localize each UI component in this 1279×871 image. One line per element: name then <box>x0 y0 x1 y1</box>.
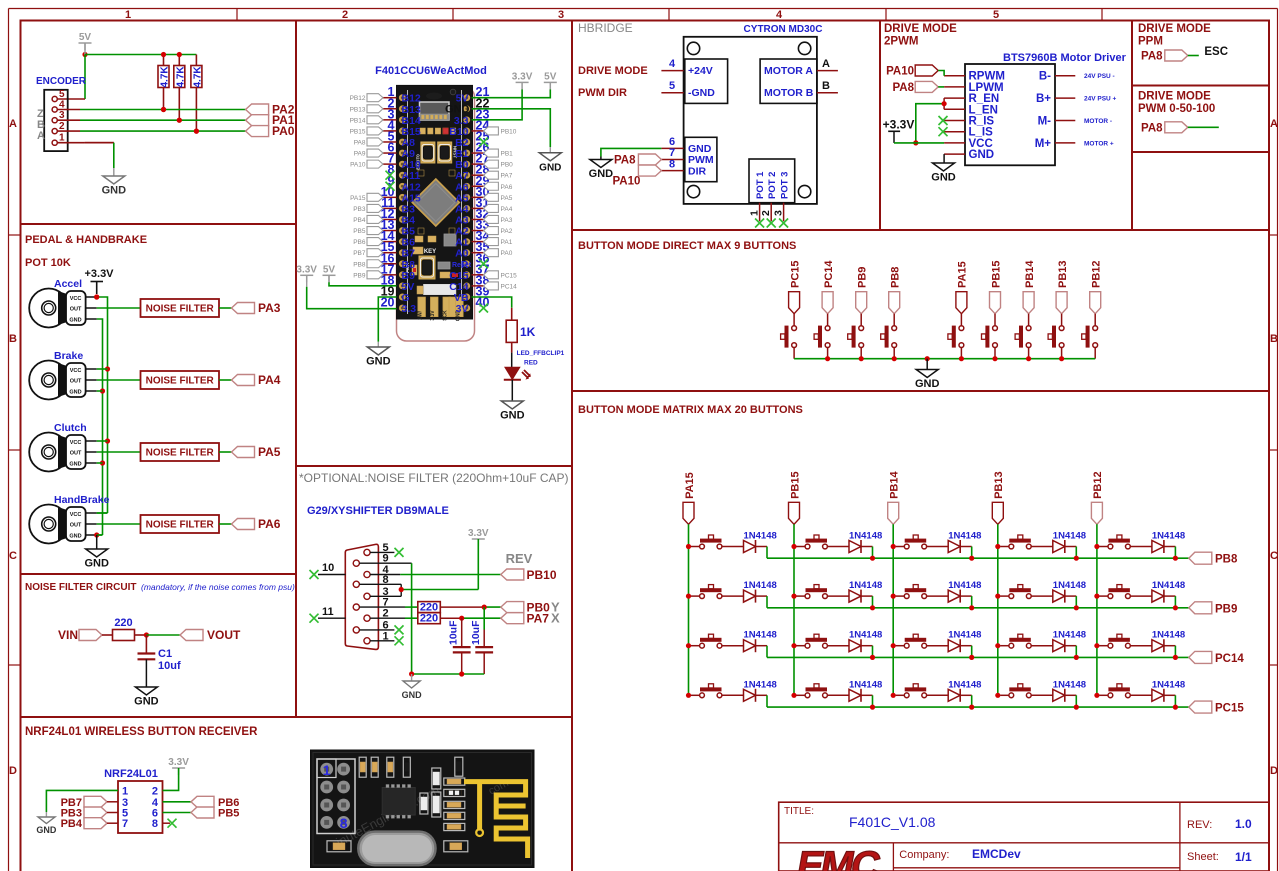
junction col PB14 row PC15 <box>891 693 896 698</box>
junction col PA15 row PC14 <box>686 643 691 648</box>
power 3.3V nrf <box>168 757 189 775</box>
wire VCC rail <box>97 297 108 513</box>
svg-text:MOTOR +: MOTOR + <box>1084 140 1114 147</box>
svg-text:PB10: PB10 <box>527 568 557 582</box>
svg-text:1N4148: 1N4148 <box>948 630 981 641</box>
wire pin39 to resistor <box>472 297 512 320</box>
hierarchical label PB8 row <box>1189 552 1238 566</box>
svg-text:4: 4 <box>776 9 783 21</box>
svg-text:REV: REV <box>506 551 533 566</box>
noise filter block HandBrake <box>141 515 220 533</box>
wire diode to bus r2c4 <box>1065 596 1077 608</box>
junction col PA15 row PB8 <box>686 544 691 549</box>
ground g29 <box>402 674 423 700</box>
svg-text:EMCDev: EMCDev <box>972 847 1021 861</box>
svg-text:REV:: REV: <box>1187 819 1212 831</box>
svg-text:+3.3V: +3.3V <box>84 268 114 280</box>
wire switch to diode r3c4 <box>1000 645 1053 647</box>
wire pin3 to PA1 <box>57 119 246 121</box>
svg-text:1N4148: 1N4148 <box>1053 679 1086 690</box>
svg-text:PC15: PC15 <box>789 260 801 288</box>
svg-text:2: 2 <box>760 210 772 216</box>
rev cell <box>1187 817 1252 831</box>
svg-text:M+: M+ <box>1035 138 1052 150</box>
diode 1N4148 r1c5 <box>1152 531 1185 554</box>
svg-text:BUTTON MODE DIRECT MAX 9 BUTTO: BUTTON MODE DIRECT MAX 9 BUTTONS <box>578 240 796 252</box>
svg-text:NOISE FILTER: NOISE FILTER <box>146 448 215 459</box>
noise filter block Accel <box>141 299 220 317</box>
junction col PB12 row PB9 <box>1094 594 1099 599</box>
switch SW PB14 <box>1015 326 1031 348</box>
svg-text:GND: GND <box>102 185 127 197</box>
svg-text:PA7: PA7 <box>501 173 513 180</box>
wire R to node <box>135 634 147 636</box>
pin numbers right 21-40 <box>472 85 490 309</box>
svg-text:1N4148: 1N4148 <box>849 580 882 591</box>
svg-text:PC15: PC15 <box>1215 703 1244 715</box>
svg-text:BTS7960B Motor Driver: BTS7960B Motor Driver <box>1003 52 1127 64</box>
section BUTTON MODE DIRECT <box>578 240 1103 390</box>
junctions direct bus <box>825 356 1064 361</box>
junction col PA15 row PB9 <box>686 594 691 599</box>
svg-text:PA15: PA15 <box>957 261 969 288</box>
capacitor 10uF right <box>470 607 493 674</box>
wire OUT Accel to noise filter <box>97 307 141 309</box>
potentiometer Clutch <box>29 422 97 472</box>
wire pin21 to 5V <box>472 89 551 97</box>
wire OUT HandBrake to noise filter <box>97 523 141 525</box>
title text <box>784 806 936 830</box>
hierarchical label PB6 <box>191 796 239 809</box>
wire diode to bus r2c2 <box>861 596 873 608</box>
junction col PA15 row PC15 <box>686 693 691 698</box>
svg-text:PA15: PA15 <box>350 195 366 202</box>
svg-text:GND: GND <box>500 410 525 422</box>
diode 1N4148 r2c5 <box>1152 580 1185 603</box>
wire row bus PC15 <box>767 706 1189 708</box>
svg-text:F401CCU6WeActMod: F401CCU6WeActMod <box>375 65 487 77</box>
wire 220 to PA7 <box>440 617 501 619</box>
switch SW matrix r1c5 <box>1108 535 1130 549</box>
svg-text:PB13: PB13 <box>993 471 1005 499</box>
svg-text:+3.3V: +3.3V <box>883 118 915 132</box>
ground 2pwm <box>931 163 956 184</box>
wire pin4 REV <box>400 574 501 576</box>
wire label to switch PC15 <box>793 314 795 326</box>
svg-text:1N4148: 1N4148 <box>744 679 777 690</box>
wire resistor to LED <box>511 342 513 367</box>
svg-text:VCC: VCC <box>70 512 82 518</box>
diode 1N4148 r1c1 <box>744 531 777 554</box>
svg-text:1N4148: 1N4148 <box>948 531 981 542</box>
junction vout node <box>144 632 149 637</box>
hierarchical label PB13 button <box>1056 260 1069 313</box>
svg-text:PA4: PA4 <box>258 373 281 387</box>
svg-text:F401C_V1.08: F401C_V1.08 <box>849 814 936 830</box>
svg-text:POT 1: POT 1 <box>755 171 766 199</box>
ground pedal <box>84 549 109 570</box>
column numbers <box>125 9 999 21</box>
svg-text:3V: 3V <box>456 303 469 315</box>
hierarchical label PB10 <box>501 568 557 582</box>
svg-text:3.3V: 3.3V <box>512 71 533 82</box>
ground direct <box>915 370 940 391</box>
row letters <box>9 118 1278 777</box>
svg-text:B+: B+ <box>1036 93 1051 105</box>
LED LED_FFBCLIP1 RED <box>504 350 565 380</box>
left pin stubs <box>944 76 965 154</box>
svg-text:OUT: OUT <box>70 379 82 385</box>
svg-text:A: A <box>822 58 830 70</box>
hierarchical label PA15 matrix column <box>683 472 696 524</box>
wire switch to diode r2c1 <box>691 595 744 597</box>
hierarchical label PA3 <box>232 301 281 315</box>
svg-text:1N4148: 1N4148 <box>948 580 981 591</box>
pin 6 GND <box>661 136 683 148</box>
hierarchical label PA10 hbridge <box>612 165 661 187</box>
switch SW matrix r1c3 <box>904 535 926 549</box>
pin name overlay left <box>402 93 421 315</box>
power 3.3V left <box>296 264 317 282</box>
junction VCC Brake <box>105 366 110 371</box>
switch SW PB12 <box>1082 326 1098 348</box>
svg-text:5V: 5V <box>323 264 336 275</box>
svg-text:Sheet:: Sheet: <box>1187 851 1219 863</box>
wire pin6 to PB5 <box>163 812 192 814</box>
wire OUT Clutch to noise filter <box>97 451 141 453</box>
wire column PB13 <box>997 524 999 695</box>
svg-text:PB14: PB14 <box>350 117 366 124</box>
no-connect POT pins <box>755 219 788 228</box>
pin 7 PWM <box>661 147 683 160</box>
svg-text:1N4148: 1N4148 <box>1152 679 1185 690</box>
svg-text:PA0: PA0 <box>272 124 295 138</box>
wire diode to bus r3c1 <box>756 646 768 658</box>
svg-text:OUT: OUT <box>70 307 82 313</box>
junction col PB14 row PC14 <box>891 643 896 648</box>
hierarchical label PB3 <box>61 807 118 820</box>
hierarchical label PA1 <box>246 113 295 127</box>
svg-text:B: B <box>9 333 17 345</box>
svg-text:PB13: PB13 <box>1057 260 1069 288</box>
wire switch to bus PC14 <box>827 347 829 358</box>
svg-text:PB13: PB13 <box>350 106 366 113</box>
hierarchical label PB14 matrix column <box>888 471 901 525</box>
svg-text:GND: GND <box>69 390 81 396</box>
switch SW matrix r2c5 <box>1108 585 1130 599</box>
svg-text:VIN: VIN <box>58 628 78 642</box>
wire label to switch PB12 <box>1094 314 1096 326</box>
switch SW matrix r1c1 <box>700 535 722 549</box>
switch SW PB13 <box>1048 326 1064 348</box>
resistor R3 4.7K <box>191 55 204 134</box>
svg-text:PB15: PB15 <box>350 128 366 135</box>
wire column PA15 <box>688 524 690 695</box>
svg-text:1N4148: 1N4148 <box>1152 531 1185 542</box>
svg-text:GND: GND <box>445 104 470 116</box>
resistor 220 Y <box>418 602 441 614</box>
pin labels right side <box>484 127 518 290</box>
svg-text:1N4148: 1N4148 <box>1053 580 1086 591</box>
ground noise filter <box>134 687 159 708</box>
svg-text:10: 10 <box>322 562 334 574</box>
wire diode to bus r3c4 <box>1065 646 1077 658</box>
svg-text:PB9: PB9 <box>353 272 366 279</box>
junction VCC HandBrake <box>0 0 1 1</box>
no-connect DB9 5 6 1 <box>395 548 404 645</box>
diode 1N4148 r4c4 <box>1053 679 1086 702</box>
svg-text:GND: GND <box>589 168 614 180</box>
svg-text:1N4148: 1N4148 <box>849 531 882 542</box>
switch SW matrix r3c3 <box>904 634 926 648</box>
svg-text:PA8: PA8 <box>1141 51 1163 63</box>
capacitor C1 10uf <box>138 635 181 672</box>
potentiometer HandBrake <box>29 494 109 544</box>
wire label to switch PB13 <box>1061 314 1063 326</box>
svg-text:11: 11 <box>322 606 334 618</box>
wire GND rail <box>97 319 103 535</box>
svg-text:3.3V: 3.3V <box>168 757 189 768</box>
svg-text:A: A <box>37 130 45 142</box>
wire switch to diode r1c3 <box>896 546 949 548</box>
switch SW matrix r1c4 <box>1009 535 1031 549</box>
hierarchical label PA4 <box>232 373 281 387</box>
right pins B- B+ M- M+ <box>1055 73 1117 147</box>
svg-text:7: 7 <box>669 147 675 159</box>
pin 8 DIR <box>661 158 683 170</box>
wire diode to bus r2c3 <box>960 596 972 608</box>
module outline U1 <box>397 87 475 341</box>
hierarchical label PA5 <box>232 445 281 459</box>
svg-text:PA4: PA4 <box>501 206 513 213</box>
svg-text:5V: 5V <box>79 32 92 43</box>
svg-text:PWM DIR: PWM DIR <box>578 87 627 99</box>
hierarchical label PC14 button <box>822 260 835 314</box>
svg-text:PB12: PB12 <box>1091 260 1103 288</box>
diode 1N4148 r4c3 <box>948 679 981 702</box>
svg-text:X: X <box>551 611 560 626</box>
wire switch to diode r1c4 <box>1000 546 1053 548</box>
junction gnd bus <box>409 671 464 676</box>
switch SW PA15 <box>948 326 964 348</box>
wire switch to diode r1c2 <box>796 546 849 548</box>
wire 5V bus <box>85 44 196 55</box>
svg-text:24V PSU +: 24V PSU + <box>1084 96 1117 103</box>
wire diode to bus r3c2 <box>861 646 873 658</box>
svg-text:-GND: -GND <box>688 87 715 99</box>
svg-text:PB15: PB15 <box>789 471 801 499</box>
svg-text:GND: GND <box>931 172 956 184</box>
svg-text:KEY: KEY <box>424 249 436 255</box>
power 5V left <box>323 264 336 282</box>
svg-text:C1: C1 <box>158 648 172 660</box>
junction row bus PB8 <box>870 556 1178 561</box>
svg-text:4.7K: 4.7K <box>175 66 186 88</box>
svg-text:EMC: EMC <box>793 843 883 871</box>
wire pin1 to GND <box>57 142 114 144</box>
svg-text:GND: GND <box>915 378 940 390</box>
svg-text:PA15: PA15 <box>684 472 696 499</box>
hierarchical label PB14 button <box>1023 260 1036 314</box>
svg-text:PB7: PB7 <box>353 250 366 257</box>
wire encoder gnd vertical <box>113 143 115 176</box>
svg-text:PA6: PA6 <box>258 517 281 531</box>
junction col PB15 row PB9 <box>791 594 796 599</box>
junction EN node <box>942 101 947 106</box>
wire pin2 to PA0 <box>57 130 246 132</box>
resistor 220 <box>113 617 135 641</box>
power 3.3V g29 <box>468 528 489 546</box>
pin A motor <box>817 58 838 71</box>
svg-text:PA3: PA3 <box>258 301 281 315</box>
ground under board <box>366 347 391 368</box>
diode 1N4148 r3c3 <box>948 630 981 653</box>
svg-text:PA7: PA7 <box>527 612 550 626</box>
DB9 shell pins 10 11 <box>318 562 346 618</box>
junction +3.3V <box>94 294 99 299</box>
svg-text:C: C <box>9 550 17 562</box>
labels DRIVE MODE PWM DIR <box>578 65 648 99</box>
svg-text:PA8: PA8 <box>892 82 914 94</box>
svg-text:POT 3: POT 3 <box>780 172 791 199</box>
svg-text:1.0: 1.0 <box>1235 817 1252 831</box>
F401 PCB photo <box>397 85 473 321</box>
wire 5V to pin5 <box>57 55 85 100</box>
svg-text:VCC: VCC <box>70 440 82 446</box>
svg-text:VOUT: VOUT <box>207 628 241 642</box>
wire pin22 to gnd <box>472 109 551 153</box>
module CYTRON MD30C <box>684 37 817 204</box>
capacitor 10uF left <box>448 618 471 674</box>
svg-text:4.7K: 4.7K <box>192 66 203 88</box>
svg-text:G29/XYSHIFTER DB9MALE: G29/XYSHIFTER DB9MALE <box>307 505 449 517</box>
wire column PB15 <box>793 524 795 695</box>
svg-text:R_IS: R_IS <box>969 116 995 128</box>
svg-text:3.3V: 3.3V <box>468 528 489 539</box>
svg-text:10uf: 10uf <box>158 660 181 672</box>
hierarchical label PB12 button <box>1090 260 1103 313</box>
switch SW matrix r2c4 <box>1009 585 1031 599</box>
wire column PB14 <box>892 524 894 695</box>
switch SW matrix r2c3 <box>904 585 926 599</box>
ground top right <box>539 153 561 174</box>
junction 5V node <box>82 52 87 57</box>
diode 1N4148 r1c2 <box>849 531 882 554</box>
svg-text:NRF24L01: NRF24L01 <box>104 768 158 780</box>
junction col PB15 row PC14 <box>791 643 796 648</box>
wire label to switch PC14 <box>827 314 829 326</box>
diode 1N4148 r3c4 <box>1053 630 1086 653</box>
hierarchical label PB15 matrix column <box>789 471 802 524</box>
ground hbridge <box>589 157 614 181</box>
wire GND pin <box>943 154 945 163</box>
svg-text:5V: 5V <box>544 71 557 82</box>
svg-text:1N4148: 1N4148 <box>849 679 882 690</box>
switch SW PC14 <box>814 326 830 348</box>
svg-text:3.3V: 3.3V <box>430 310 436 321</box>
svg-text:1: 1 <box>323 762 331 778</box>
wire switch to bus PB13 <box>1061 347 1063 358</box>
svg-text:R_EN: R_EN <box>969 93 1000 105</box>
switch SW matrix r4c4 <box>1009 684 1031 698</box>
svg-text:*OPTIONAL:NOISE FILTER (220Ohm: *OPTIONAL:NOISE FILTER (220Ohm+10uF CAP) <box>299 471 569 485</box>
svg-text:PC14: PC14 <box>823 260 835 288</box>
power +3.3V 2pwm <box>883 118 915 143</box>
wire diode to bus r1c2 <box>861 547 873 559</box>
hierarchical label PA7 <box>501 611 560 626</box>
svg-text:1: 1 <box>122 785 128 797</box>
section G29 XYSHIFTER <box>299 471 569 700</box>
section PEDAL & HANDBRAKE <box>25 234 281 570</box>
svg-text:PWM 0-50-100: PWM 0-50-100 <box>1138 103 1215 115</box>
junction row bus PB9 <box>870 605 1178 610</box>
wire switch to diode r3c5 <box>1099 645 1152 647</box>
hierarchical label PA8 hbridge <box>614 154 661 167</box>
svg-text:PA0: PA0 <box>501 250 513 257</box>
connector J1 ENCODER <box>36 76 87 151</box>
wire diode to bus r4c2 <box>861 695 873 707</box>
wire C1 to gnd <box>145 659 147 687</box>
wire switch to diode r4c1 <box>691 694 744 696</box>
svg-text:DRIVE MODE: DRIVE MODE <box>884 23 957 35</box>
wire switch to bus PC15 <box>793 347 795 358</box>
hierarchical label PA6 <box>232 517 281 531</box>
wire diode to bus r3c5 <box>1164 646 1176 658</box>
svg-text:ENCODER: ENCODER <box>36 76 87 87</box>
svg-text:RED: RED <box>524 360 538 367</box>
section F401CCU6WeActMod <box>296 65 564 422</box>
svg-text:GND: GND <box>69 318 81 324</box>
svg-text:3.3V: 3.3V <box>296 264 317 275</box>
wire gnd bus g29 <box>412 673 485 675</box>
ground nrf <box>36 817 57 835</box>
connector DB9 male <box>345 544 378 649</box>
switch SW matrix r3c2 <box>805 634 827 648</box>
NRF24L01 PCB photo <box>311 750 535 868</box>
wire 5V to pin18 <box>329 275 397 286</box>
svg-text:1N4148: 1N4148 <box>948 679 981 690</box>
svg-text:NOISE FILTER: NOISE FILTER <box>146 520 215 531</box>
svg-text:DRIVE MODE: DRIVE MODE <box>1138 91 1211 103</box>
svg-text:8: 8 <box>340 815 348 831</box>
wire pin1 to gnd <box>46 790 118 817</box>
svg-text:NOISE FILTER: NOISE FILTER <box>146 376 215 387</box>
svg-text:M-: M- <box>1038 116 1052 128</box>
diode 1N4148 r2c2 <box>849 580 882 603</box>
svg-text:10uF: 10uF <box>470 620 482 645</box>
svg-text:GND: GND <box>134 696 159 708</box>
svg-text:PA8: PA8 <box>614 155 636 167</box>
junction x node <box>459 616 464 621</box>
hierarchical label PB9 button <box>856 267 869 314</box>
diode 1N4148 r1c3 <box>948 531 981 554</box>
power 5V <box>79 32 92 50</box>
junction row bus PC15 <box>870 705 1178 710</box>
wire diode to bus r3c3 <box>960 646 972 658</box>
junction y node <box>482 605 487 610</box>
diode 1N4148 r2c3 <box>948 580 981 603</box>
hierarchical label PA8 2pwm <box>892 81 944 94</box>
svg-text:B-: B- <box>1039 71 1051 83</box>
svg-text:PA10: PA10 <box>612 176 640 188</box>
junction col PB13 row PC15 <box>995 693 1000 698</box>
diode 1N4148 r1c4 <box>1053 531 1086 554</box>
svg-text:LPWM: LPWM <box>969 82 1004 94</box>
svg-text:PA1: PA1 <box>501 239 513 246</box>
svg-text:+24V: +24V <box>688 65 713 77</box>
wire diode to bus r4c3 <box>960 695 972 707</box>
svg-text:3: 3 <box>773 210 785 216</box>
